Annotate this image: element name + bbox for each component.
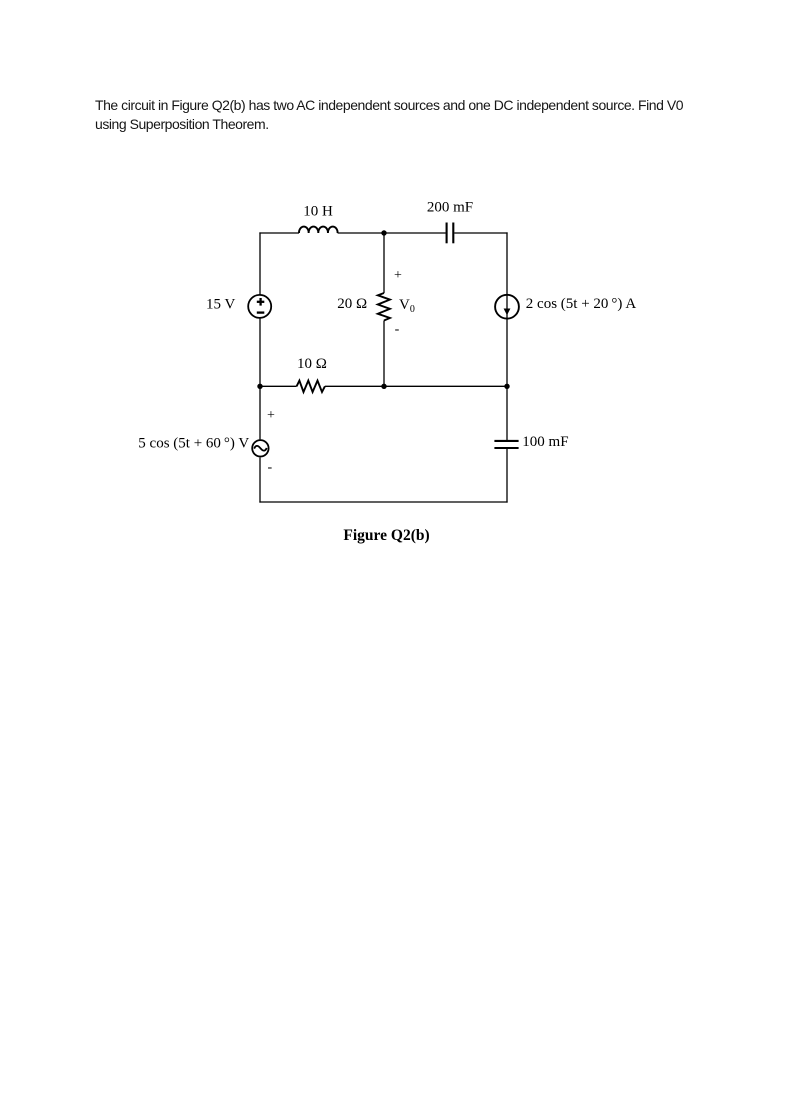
capacitor C1 200 mF plates <box>447 223 454 244</box>
resistor R1 20 ohm vertical <box>378 293 390 321</box>
wire top-left horizontal <box>259 232 299 234</box>
inductor L1 10 H <box>299 227 338 233</box>
svg-text:V0: V0 <box>399 297 415 315</box>
wire right vertical upper <box>506 232 508 386</box>
wire left mid vertical <box>259 318 261 386</box>
node dot mid middle <box>381 384 386 389</box>
voltage source V1 plus sign <box>257 298 265 306</box>
capacitor C2 100 mF plates <box>494 441 518 448</box>
wire bottom horizontal <box>259 501 507 503</box>
wire top-mid horizontal <box>338 232 446 234</box>
svg-text:5 cos (5t + 60 °) V: 5 cos (5t + 60 °) V <box>138 436 249 452</box>
node dot mid right <box>504 384 509 389</box>
wire left lower vertical <box>259 386 261 439</box>
voltage source V1 minus sign <box>257 311 265 313</box>
wire middle vertical upper <box>383 233 385 293</box>
current source I1 arrowhead <box>504 309 511 316</box>
svg-text:+: + <box>267 408 275 423</box>
node dot top middle <box>381 230 386 235</box>
resistor R2 10 ohm horizontal <box>297 381 325 392</box>
svg-text:-: - <box>267 460 272 475</box>
svg-text:10 H: 10 H <box>303 204 333 220</box>
current source I1 circle <box>495 295 519 319</box>
svg-text:100 mF: 100 mF <box>522 434 568 450</box>
ac source V2 circle <box>252 440 268 456</box>
svg-text:200 mF: 200 mF <box>427 200 473 216</box>
wire right bottom vertical <box>506 449 508 503</box>
wire mid horizontal left <box>260 385 297 387</box>
wire right vertical lower <box>506 386 508 440</box>
voltage source V1 15 V circle <box>248 295 271 318</box>
wire top-right horizontal <box>454 232 507 234</box>
node dot mid left <box>257 384 262 389</box>
svg-text:2 cos (5t + 20 °) A: 2 cos (5t + 20 °) A <box>526 296 637 312</box>
ac source V2 sine tilde <box>254 446 267 451</box>
wire mid horizontal right <box>325 385 507 387</box>
wire left upper vertical <box>259 232 261 294</box>
svg-text:20 Ω: 20 Ω <box>337 296 367 312</box>
svg-text:-: - <box>395 322 400 337</box>
svg-text:15 V: 15 V <box>206 297 235 313</box>
svg-text:+: + <box>394 268 402 283</box>
wire left bottom vertical <box>259 457 261 502</box>
wire middle vertical lower <box>383 321 385 387</box>
svg-text:Figure Q2(b): Figure Q2(b) <box>343 527 429 544</box>
svg-text:10 Ω: 10 Ω <box>297 356 327 372</box>
